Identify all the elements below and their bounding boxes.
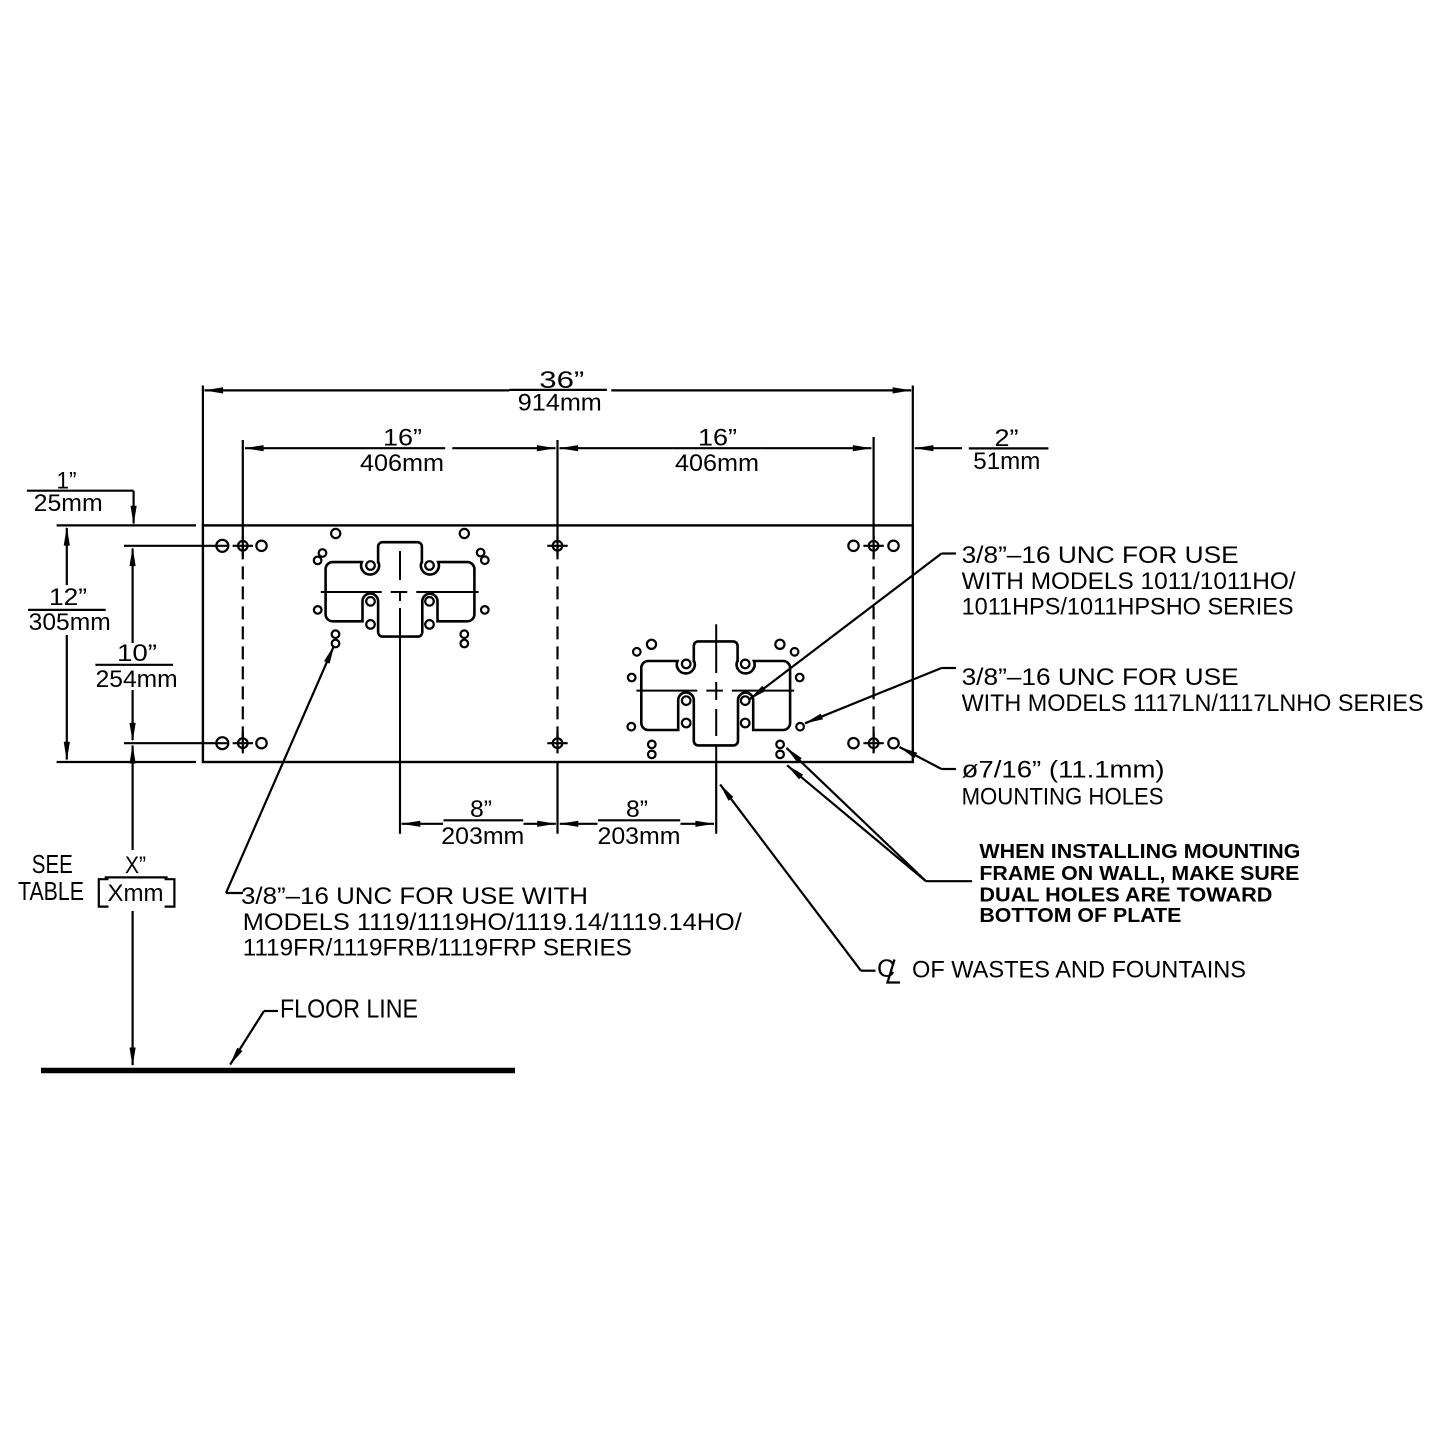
- right pattern vertical centerline above: [715, 624, 717, 673]
- left pattern centerline extension below plate: [399, 762, 401, 834]
- 16in R left arrow: [559, 445, 578, 451]
- 36in left arrow: [204, 387, 223, 393]
- 16in L dim line b: [452, 447, 555, 449]
- right pattern hole slot lower L: [682, 719, 691, 728]
- left pattern hole top right: [460, 529, 469, 538]
- left pattern hole far left: [314, 606, 322, 614]
- left pattern hole upper left b: [314, 557, 322, 565]
- 2in arrow: [914, 445, 933, 451]
- svg-text:ø7/16” (11.1mm): ø7/16” (11.1mm): [962, 757, 1165, 784]
- 16in L dim line a: [245, 447, 356, 449]
- leader to 1011 hole: [942, 552, 957, 554]
- leader to dual holes: [926, 880, 972, 882]
- left pattern hole slot lower R: [425, 620, 434, 629]
- left pattern hole slot lower L: [366, 620, 375, 629]
- 16in R dim line b: [761, 447, 871, 449]
- 36in fraction bar: [509, 389, 607, 391]
- svg-text:16”: 16”: [698, 424, 737, 451]
- right pattern centerline below tab: [715, 745, 717, 762]
- svg-text:203mm: 203mm: [441, 823, 524, 850]
- 36in dim line right part: [611, 389, 911, 391]
- 1in down arrow: [131, 506, 137, 525]
- top left mounting hole: [216, 540, 228, 552]
- bracket left of Xmm: [99, 879, 109, 906]
- 12in fraction bar: [28, 609, 106, 611]
- right pattern hole slot upper R: [741, 696, 750, 705]
- 16in R dim line a: [560, 447, 673, 449]
- 16in L left arrow: [245, 445, 264, 451]
- left pattern hole slot upper L: [366, 597, 375, 606]
- left pattern hole notch upper R: [425, 561, 434, 570]
- 1in leader horizontal: [108, 490, 134, 492]
- left 16in extension: [242, 440, 244, 525]
- svg-text:3/8”–16 UNC FOR USE: 3/8”–16 UNC FOR USE: [962, 542, 1239, 569]
- arrow at floor line: [230, 1048, 243, 1066]
- svg-text:MOUNTING HOLES: MOUNTING HOLES: [962, 784, 1164, 811]
- 2in arrow shaft: [915, 447, 962, 449]
- floor line: [41, 1068, 515, 1074]
- leader centerline of wastes: [861, 970, 876, 972]
- bottom middle crosshair: [547, 733, 567, 753]
- mounting plate outline: [203, 525, 913, 762]
- right pattern hole notch upper L: [682, 660, 691, 669]
- 8in L left arrow: [401, 821, 420, 827]
- 16in L right arrow: [537, 445, 556, 451]
- 10in dim line lower: [132, 690, 134, 740]
- 8in R right arrow: [695, 821, 714, 827]
- right pattern hole slot lower R: [741, 719, 750, 728]
- svg-text:Xmm: Xmm: [108, 880, 164, 907]
- 10in dim line upper: [132, 549, 134, 644]
- svg-text:1119FR/1119FRB/1119FRP SERIES: 1119FR/1119FRB/1119FRP SERIES: [243, 934, 632, 961]
- left pattern hole top left: [331, 529, 340, 538]
- 36in right arrow: [893, 387, 912, 393]
- left pattern hole upper right b: [481, 556, 489, 564]
- top left second hole: [256, 541, 266, 551]
- right cross pattern cutout outline: [641, 641, 790, 745]
- left pattern hole slot upper R: [425, 597, 434, 606]
- 12in dim line upper: [66, 528, 68, 585]
- svg-text:3/8”–16 UNC FOR USE: 3/8”–16 UNC FOR USE: [962, 664, 1239, 691]
- right pattern hole far right lower: [796, 723, 804, 731]
- right 16in extension: [872, 437, 874, 525]
- right pattern hole dual R1: [776, 741, 784, 749]
- svg-text:406mm: 406mm: [675, 450, 759, 477]
- right pattern hole notch upper R: [741, 660, 750, 669]
- left pattern hole dual R1: [461, 630, 469, 638]
- right pattern hole upper left b: [633, 648, 641, 656]
- 10in fraction bar: [95, 664, 173, 666]
- dashed hole column middle: [556, 526, 558, 748]
- 16in R fraction bar: [673, 447, 762, 449]
- right pattern hole dual L2: [648, 751, 656, 759]
- right pattern centerline extension below plate: [715, 762, 717, 834]
- right pattern horizontal centerline: [636, 690, 697, 692]
- dashed hole column right: [872, 526, 874, 752]
- bracket right of Xmm: [165, 879, 175, 906]
- arrow at 1117 hole: [804, 714, 823, 724]
- left pattern hole upper right a: [477, 549, 485, 557]
- svg-text:51mm: 51mm: [973, 448, 1040, 475]
- top left crosshair: [233, 536, 253, 556]
- left pattern horizontal centerline: [321, 591, 382, 593]
- svg-text:914mm: 914mm: [518, 390, 602, 417]
- X dim up arrow: [130, 745, 136, 764]
- svg-text:MODELS 1119/1119HO/1119.14/111: MODELS 1119/1119HO/1119.14/1119.14HO/: [243, 909, 742, 936]
- svg-text:25mm: 25mm: [34, 490, 103, 517]
- svg-text:305mm: 305mm: [29, 609, 111, 636]
- 16in L fraction bar: [356, 447, 445, 449]
- top right mounting hole: [848, 541, 858, 551]
- top right outer mounting hole: [888, 541, 898, 551]
- svg-text:TABLE: TABLE: [18, 876, 84, 906]
- 16in R right arrow: [853, 445, 872, 451]
- svg-text:FRAME ON WALL, MAKE SURE: FRAME ON WALL, MAKE SURE: [979, 863, 1299, 885]
- right pattern hole top right: [775, 640, 784, 649]
- svg-text:1011HPS/1011HPSHO SERIES: 1011HPS/1011HPSHO SERIES: [962, 594, 1294, 621]
- 12in down arrow: [64, 742, 70, 761]
- leader to mounting hole: [942, 768, 957, 770]
- 1in fraction bar: [27, 490, 108, 492]
- left pattern hole upper left a: [319, 549, 327, 557]
- svg-text:OF WASTES AND FOUNTAINS: OF WASTES AND FOUNTAINS: [912, 956, 1246, 983]
- svg-text:SEE: SEE: [32, 849, 73, 879]
- svg-text:DUAL HOLES ARE TOWARD: DUAL HOLES ARE TOWARD: [979, 885, 1272, 907]
- arrow at 1119 hole: [324, 645, 334, 664]
- svg-text:406mm: 406mm: [360, 450, 444, 477]
- left pattern vertical centerline: [399, 551, 401, 580]
- right pattern hole top left: [647, 640, 656, 649]
- 12in dim line lower: [66, 635, 68, 760]
- svg-text:X”: X”: [125, 852, 146, 879]
- X dim line upper: [132, 746, 134, 851]
- right pattern hole dual L1: [648, 741, 656, 749]
- right pattern hole slot upper L: [682, 696, 691, 705]
- svg-text:8”: 8”: [626, 796, 648, 823]
- bottom hole row extension: [124, 742, 228, 744]
- left pattern hole far right: [481, 606, 489, 614]
- svg-text:3/8”–16 UNC FOR USE WITH: 3/8”–16 UNC FOR USE WITH: [241, 883, 588, 910]
- X fraction bar: [105, 876, 168, 878]
- svg-text:16”: 16”: [383, 424, 422, 451]
- arrow at 1011 hole: [749, 686, 766, 700]
- svg-text:10”: 10”: [117, 640, 157, 667]
- left pattern hole dual L2: [332, 640, 340, 648]
- bottom right crosshair: [863, 733, 883, 753]
- svg-text:WHEN INSTALLING MOUNTING: WHEN INSTALLING MOUNTING: [979, 841, 1300, 863]
- 10in down arrow: [130, 723, 136, 742]
- svg-text:254mm: 254mm: [96, 666, 178, 693]
- middle extension below plate: [556, 762, 558, 834]
- arrow at dual hole bottom: [787, 765, 804, 780]
- bottom left second hole: [256, 738, 266, 748]
- X dim down arrow: [130, 1048, 136, 1067]
- top middle crosshair: [547, 536, 567, 556]
- left pattern hole dual R2: [461, 640, 469, 648]
- X dim line lower: [132, 911, 134, 1065]
- svg-text:FLOOR LINE: FLOOR LINE: [280, 994, 418, 1024]
- floor line leader: [264, 1010, 278, 1012]
- right pattern hole far left lower: [628, 723, 636, 731]
- arrow at dual hole top: [786, 747, 802, 762]
- arrow at mounting hole: [899, 747, 917, 759]
- svg-text:203mm: 203mm: [598, 823, 681, 850]
- centerline L stroke: [888, 960, 901, 983]
- top hole row extension: [124, 545, 228, 547]
- bottom right outer mounting hole: [888, 738, 898, 748]
- 10in up arrow: [130, 547, 136, 566]
- right pattern hole far left upper: [628, 674, 636, 682]
- 8in R dim line a: [560, 823, 598, 825]
- 36in dim line left part: [205, 389, 510, 391]
- bottom left crosshair: [233, 733, 253, 753]
- plate bottom extension left: [57, 761, 196, 763]
- right pattern vertical centerline dashes: [715, 682, 717, 700]
- plate top extension left: [57, 524, 196, 526]
- dashed hole column left: [242, 526, 244, 748]
- 8in L fraction bar: [444, 819, 524, 821]
- 1in leader vertical: [133, 491, 135, 524]
- svg-text:WITH MODELS 1011/1011HO/: WITH MODELS 1011/1011HO/: [962, 568, 1296, 595]
- leader to 1119 dual holes: [226, 892, 243, 894]
- 8in R dim line b: [681, 823, 715, 825]
- arrow at waste centerline: [720, 784, 734, 801]
- 12in up arrow: [64, 527, 70, 546]
- top right crosshair: [863, 536, 883, 556]
- left pattern centerline below tab: [399, 637, 401, 762]
- right pattern hole far right upper: [796, 674, 804, 682]
- 8in L right arrow: [537, 821, 556, 827]
- left extension line 36in: [202, 386, 204, 526]
- left cross pattern cutout outline: [326, 542, 475, 636]
- leader to 1117 hole: [942, 667, 957, 669]
- svg-text:8”: 8”: [470, 796, 492, 823]
- svg-text:12”: 12”: [49, 584, 87, 611]
- bottom right mounting hole: [848, 738, 858, 748]
- 8in R left arrow: [559, 821, 578, 827]
- bottom left mounting hole: [216, 737, 228, 749]
- middle extension: [556, 440, 558, 525]
- 8in R fraction bar: [598, 819, 680, 821]
- 2in fraction bar: [969, 447, 1049, 449]
- left pattern hole dual L1: [332, 630, 340, 638]
- 8in L dim line b: [524, 823, 556, 825]
- right pattern hole upper right b: [791, 648, 799, 656]
- left pattern hole notch upper L: [366, 561, 375, 570]
- svg-text:WITH MODELS 1117LN/1117LNHO SE: WITH MODELS 1117LN/1117LNHO SERIES: [962, 690, 1424, 717]
- 8in L dim line a: [402, 823, 443, 825]
- right extension line 36in: [912, 386, 914, 526]
- svg-text:BOTTOM OF PLATE: BOTTOM OF PLATE: [979, 905, 1181, 927]
- right pattern hole dual R2: [776, 751, 784, 759]
